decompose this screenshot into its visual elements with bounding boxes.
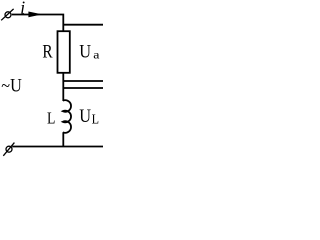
svg-text:U: U bbox=[79, 41, 91, 62]
wire: bottom rail to right edge bbox=[12, 146, 103, 148]
terminal (bottom) bbox=[3, 143, 14, 156]
terminal (top input) bbox=[1, 9, 13, 20]
svg-text:L: L bbox=[47, 109, 55, 128]
inductor L (3-loop coil) bbox=[63, 100, 71, 133]
node tap: top of R to right edge bbox=[63, 24, 103, 26]
svg-text:R: R bbox=[42, 42, 53, 62]
node tap: top of L to right edge bbox=[63, 87, 103, 89]
node tap: bottom of R to right edge bbox=[63, 80, 103, 82]
svg-text:U: U bbox=[79, 106, 91, 127]
current arrow bbox=[28, 12, 42, 18]
wire: between R and L bbox=[62, 73, 64, 101]
wire: bottom lead from L to bottom rail bbox=[62, 132, 64, 146]
svg-text:a: a bbox=[93, 47, 100, 61]
wire: top lead from terminal to resistor bbox=[12, 15, 64, 32]
svg-text:~U: ~U bbox=[1, 76, 22, 97]
svg-text:L: L bbox=[92, 111, 99, 126]
resistor R bbox=[58, 31, 70, 73]
